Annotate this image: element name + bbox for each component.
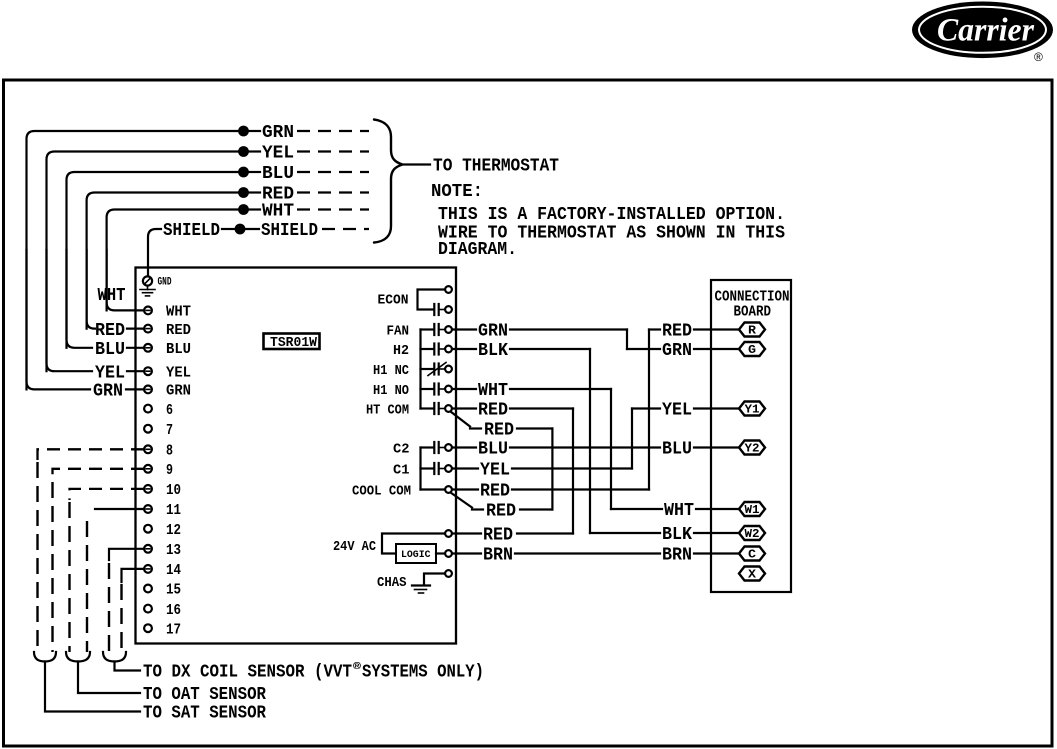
svg-text:SHIELD: SHIELD [261,221,318,241]
svg-text:SHIELD: SHIELD [163,221,220,241]
wire C2 BLU to Y2 [453,440,739,460]
svg-text:12: 12 [166,522,181,539]
wire HT COM RED to 24V [453,401,573,546]
terminal WHT [144,304,191,321]
svg-text:SYSTEMS ONLY): SYSTEMS ONLY) [362,663,484,683]
svg-text:YEL: YEL [166,364,191,381]
terminal 7 [144,422,173,439]
svg-text:TO OAT SENSOR: TO OAT SENSOR [143,685,266,705]
contact H1 NC [373,363,452,379]
shield pair cup OAT [66,652,90,662]
terminal Y1 connection board [739,402,765,417]
svg-text:W1: W1 [745,503,760,517]
note text [431,182,785,260]
svg-text:8: 8 [166,443,173,460]
svg-text:THIS IS A FACTORY-INSTALLED OP: THIS IS A FACTORY-INSTALLED OPTION. [438,205,785,225]
svg-text:W2: W2 [745,527,760,541]
svg-text:BOARD: BOARD [734,304,772,321]
svg-text:24V AC: 24V AC [333,539,376,555]
svg-text:10: 10 [166,482,181,499]
nameplate TSR01W [264,334,320,352]
svg-text:Carrier: Carrier [937,13,1035,49]
brace to thermostat [374,120,403,243]
svg-text:GRN: GRN [662,341,692,361]
svg-text:G: G [748,343,756,357]
svg-text:BLU: BLU [95,340,125,360]
svg-text:BLU: BLU [662,440,692,460]
wire thermostat BLU [67,164,370,348]
svg-text:H1 NO: H1 NO [373,383,409,399]
wire H1 NO WHT to W1 [453,381,739,521]
wire COOL COM RED to R [453,322,739,502]
Carrier logo [912,2,1053,65]
wire GRN to terminal with label [27,250,145,402]
wire thermostat YEL [47,144,370,372]
wire to DX sensor [115,662,141,671]
terminal W1 connection board [739,502,765,517]
terminal BLU [144,341,191,358]
svg-text:H1 NC: H1 NC [373,363,410,379]
terminal 11 [144,502,181,519]
wire terminal 9 dashed [53,469,145,480]
svg-text:14: 14 [166,562,181,579]
svg-text:YEL: YEL [480,461,510,481]
wire LOGIC BRN to C [453,546,739,566]
svg-text:6: 6 [166,402,173,419]
contact H1 NO [373,383,452,399]
wire C1 YEL to Y1 [453,401,739,481]
svg-text:YEL: YEL [662,401,692,421]
svg-text:BLK: BLK [662,525,692,545]
terminal 16 [144,602,181,619]
svg-text:RED: RED [486,502,516,522]
svg-text:GRN: GRN [262,123,294,143]
svg-text:BRN: BRN [483,546,513,566]
svg-text:DIAGRAM.: DIAGRAM. [438,240,517,260]
svg-text:H2: H2 [393,343,409,359]
svg-text:C1: C1 [393,462,410,478]
svg-text:11: 11 [166,502,181,519]
terminal W2 connection board [739,526,765,541]
terminal RED [144,322,191,339]
wire to SAT sensor [45,662,140,712]
wire to OAT sensor [78,662,140,694]
terminal G connection board [739,342,765,357]
svg-text:GRN: GRN [166,383,191,400]
terminal 15 [144,582,181,599]
svg-text:YEL: YEL [95,363,125,383]
svg-text:Y2: Y2 [745,442,760,456]
svg-text:15: 15 [166,582,181,599]
svg-text:RED: RED [478,401,508,421]
svg-text:BRN: BRN [662,546,692,566]
svg-text:WHT: WHT [166,304,191,321]
wire RED to terminal with label [87,250,144,341]
svg-text:GRN: GRN [93,382,123,402]
svg-text:RED: RED [166,322,191,339]
svg-text:CHAS: CHAS [377,575,407,591]
TSR01W board outline [136,268,457,644]
wire terminal 13 [109,549,144,560]
svg-text:FAN: FAN [387,323,410,339]
svg-text:WHT: WHT [98,286,126,306]
svg-text:COOL COM: COOL COM [352,483,411,499]
svg-text:GND: GND [158,276,172,288]
svg-text:TO DX COIL SENSOR (VVT: TO DX COIL SENSOR (VVT [143,663,352,683]
svg-text:BLK: BLK [478,341,508,361]
svg-text:9: 9 [166,462,173,479]
wire thermostat RED [87,185,369,329]
svg-text:RED: RED [484,421,514,441]
wire thermostat GRN [27,123,370,389]
label TO DX COIL SENSOR [143,661,484,682]
wire WHT to terminal [107,250,144,310]
bracket FAN to HT COM [419,330,421,409]
svg-text:WHT: WHT [262,202,294,222]
terminal 12 [144,522,181,539]
svg-text:TO THERMOSTAT: TO THERMOSTAT [433,157,559,177]
terminal COOL COM [352,483,452,499]
terminal 8 [144,443,173,460]
svg-text:RED: RED [480,482,510,502]
terminal C connection board [739,547,765,562]
svg-text:TSR01W: TSR01W [270,336,318,351]
wire HT COM RED jumper [451,412,553,522]
svg-text:C: C [748,548,756,562]
svg-text:BLU: BLU [262,164,294,184]
svg-text:RED: RED [662,322,692,342]
terminal X connection board [739,567,765,582]
svg-text:WHT: WHT [478,381,508,401]
svg-text:LOGIC: LOGIC [401,550,431,561]
terminal 10 [144,482,181,499]
contact ECON [378,286,452,315]
wire BLU to terminal with label [67,250,145,360]
terminal 17 [144,621,181,638]
wire thermostat WHT [107,202,369,311]
shield pair cup DX [103,652,126,662]
wire thermostat SHIELD [148,221,369,276]
svg-text:ECON: ECON [378,293,409,309]
svg-text:NOTE:: NOTE: [431,182,483,202]
svg-text:Y1: Y1 [745,403,760,417]
ground symbol CHAS [412,586,430,594]
wire terminal 11 [95,508,144,510]
svg-text:BLU: BLU [166,341,191,358]
terminal 14 [144,562,181,579]
terminal 13 [144,542,181,559]
contact FAN [387,323,452,339]
terminal YEL [144,364,191,381]
svg-text:BLU: BLU [478,440,508,460]
terminal R connection board [739,323,765,338]
terminal GND [143,276,172,288]
svg-text:GRN: GRN [478,322,508,342]
contact H2 [393,343,452,359]
svg-text:7: 7 [166,422,173,439]
svg-text:®: ® [353,661,361,673]
terminal CHAS [377,570,452,591]
svg-text:17: 17 [166,621,181,638]
wire H2 BLK to W2 [453,341,739,545]
contact C1 [393,462,452,478]
svg-text:WHT: WHT [664,501,694,521]
terminal 24V AC [445,530,452,537]
terminal 9 [144,462,173,479]
svg-text:C2: C2 [393,441,410,457]
wire terminal 10 dashed [70,489,145,500]
svg-text:13: 13 [166,542,181,559]
bracket C2 to COOL COM [419,448,421,490]
contact HT COM [366,402,452,418]
wire terminal 8 dashed [38,449,145,460]
logic box U1 [396,544,436,563]
svg-text:TO SAT SENSOR: TO SAT SENSOR [143,704,266,724]
terminal Y2 connection board [739,441,765,456]
shield pair cup SAT [34,652,56,662]
wire 24V AC bracket [382,534,445,554]
svg-text:X: X [748,568,757,582]
svg-text:YEL: YEL [262,144,294,164]
connection board outline [711,280,791,592]
svg-text:HT COM: HT COM [366,402,409,418]
wire FAN GRN to G [453,322,739,362]
ground symbol [140,286,155,296]
wire YEL to terminal with label [47,250,145,383]
wire LOGIC out [436,552,445,554]
wire to thermostat label [404,163,430,165]
svg-text:RED: RED [95,321,125,341]
contact C2 [393,441,452,457]
terminal 6 [144,402,173,419]
label CONNECTION BOARD [715,289,790,321]
svg-text:RED: RED [483,526,513,546]
svg-text:®: ® [1034,50,1043,64]
svg-text:16: 16 [166,602,181,619]
terminal GRN [144,383,191,400]
terminal LOGIC out [445,550,452,557]
svg-text:R: R [748,324,757,338]
wire terminal 14 [122,569,145,582]
